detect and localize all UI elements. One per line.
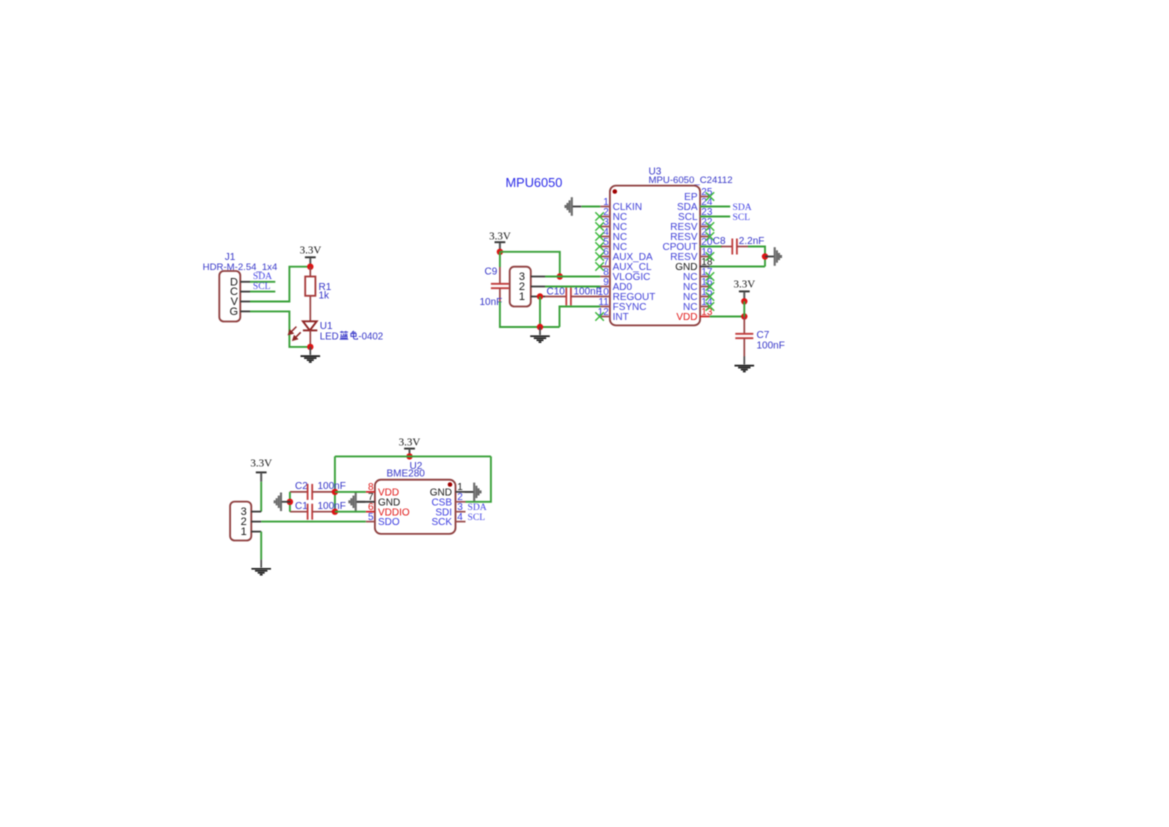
svg-text:1: 1 [241,526,247,538]
resistor R1 body [305,277,315,296]
no-connect X pin3 [595,222,604,231]
wire row8 VLOGIC [545,276,600,278]
capacitor C8 [721,239,748,255]
power 3.3V symbol (top) [404,448,415,450]
capacitor C2 [290,484,335,500]
junction node caps ground [287,499,293,505]
svg-text:1k: 1k [319,290,331,301]
wire SDO run [261,521,366,523]
ground below LED [301,347,321,362]
wire pin18 GND run [710,266,765,268]
wire 3.3V to VDD node [743,301,745,316]
U3 right pin numbers [701,187,713,318]
wire SDA pin24 [700,206,730,208]
svg-text:BME280: BME280 [387,469,426,480]
no-connect X pin16 [706,282,715,291]
capacitor C9 [491,267,509,302]
svg-text:100nF: 100nF [318,481,346,492]
U3 pin13 stub (VDD, red) [700,316,710,318]
no-connect X pin17 [706,272,715,281]
svg-text:MPU6050: MPU6050 [506,175,563,190]
wire header pin1 to ground [260,532,262,560]
resistor R1 top lead [309,267,311,277]
U2 right pin names [430,488,453,529]
wire 3.3V down to header pin3 [260,482,262,512]
junction node LED/GND [307,344,313,350]
header pin 3 stub [251,511,261,513]
junction node C2/VDD [332,489,338,495]
ground at U2 pin7 (points left) [349,493,365,512]
junction node VDD/C7 [741,313,747,319]
wire C1 node to pin6 [335,511,366,513]
power 3.3V symbol (header) [256,471,267,473]
no-connect X pin15 [706,292,715,301]
svg-text:SCL: SCL [733,212,751,223]
chip U3 body [610,186,700,326]
wire 3.3V to VLOGIC [500,252,560,277]
no-connect X pin12 [595,312,604,321]
wire SCL pin23 [700,216,730,218]
svg-text:SCK: SCK [431,517,452,528]
junction node 3.3V right [741,298,747,304]
capacitor C10 [545,288,600,306]
U2 left pin numbers [368,482,374,523]
svg-text:C9: C9 [485,267,498,278]
svg-text:3.3V: 3.3V [489,231,511,243]
ground below header [251,560,271,575]
power 3.3V symbol (left) [495,241,506,243]
U2 right pin numbers [457,482,463,523]
wire row11 FSYNC to gnd rail [560,307,601,328]
header body (3 pin) [230,502,251,541]
wire C8 to ground corner [748,247,765,267]
junction node gnd rail [537,324,543,330]
wire pin13 VDD [710,316,745,318]
U3 left pin names [613,202,656,323]
wire J1.V to 3.3V [250,267,310,302]
junction node 3.3V top [406,453,412,459]
junction node C1/VDDIO [332,509,338,515]
power 3.3V symbol [305,256,316,258]
chip U3 pin-1 mark dot [613,189,618,194]
ground right of C8 (points right) [765,247,781,266]
junction node 3.3V/R1 [307,264,313,270]
no-connect X pin21 [706,232,715,241]
U2 pin7 stub+wire (GND black) [356,501,375,503]
header pin 1 stub [251,531,261,533]
U2 pin1 stub+wire (GND black) [456,491,475,493]
chip U2 body [375,480,456,534]
wire right drop to CSB [466,456,491,501]
wire SCL from J1.C [250,291,275,293]
junction node at sideways ground [762,253,768,259]
no-connect X pin19 [706,252,715,261]
svg-text:2.2nF: 2.2nF [739,236,765,247]
jumper header body (3 pin) [510,267,531,307]
svg-text:VDD: VDD [676,312,697,323]
U3 right pin names [663,192,698,323]
wire left drop to C2/C1 [334,456,336,511]
svg-text:SCL: SCL [468,512,486,523]
wire J1.G to LED cathode [250,311,310,347]
LED U1 cathode bar [303,329,317,331]
junction node jumper pin1 [537,293,543,299]
capacitor C1 [290,504,335,520]
capacitor C9 top wire [499,252,501,267]
U2 pin3 stub [456,511,466,513]
svg-text:INT: INT [613,312,629,323]
connector J1 body [219,271,240,322]
ground below rail [530,327,550,342]
svg-text:SCL: SCL [253,281,271,292]
U3 pin18 stub (GND, black) [700,266,710,268]
U2 left pin names [378,488,410,529]
no-connect X pin2 [595,212,604,221]
wire pin1 CLKIN to ground [582,206,601,208]
no-connect X pin5 [595,242,604,251]
power 3.3V symbol (right) [739,290,750,292]
LED U1 emission arrows [289,327,301,340]
svg-text:C8: C8 [713,236,726,247]
svg-text:3.3V: 3.3V [399,436,421,448]
jumper pin 2 stub [531,286,545,288]
svg-text:3.3V: 3.3V [250,458,272,470]
U2 pin4 stub [456,521,466,523]
wire C2 node to pin8 [335,491,366,493]
svg-text:-0402: -0402 [358,331,383,342]
J1 pin G stub [240,310,250,312]
no-connect X pin6 [595,252,604,261]
header pin 2 stub [251,521,261,523]
ground at CLKIN (points left) [566,197,582,216]
wire between C2/C1 left plates [289,492,291,512]
U2 pin6 stub (VDDIO red) [366,511,375,513]
svg-text:1: 1 [519,291,525,303]
J1 pin D stub [240,281,250,283]
U2 pin2 stub [456,501,466,503]
no-connect X pin14 [706,302,715,311]
svg-text:100nF: 100nF [318,501,346,512]
chip U2 pin-1 mark dot [448,482,453,487]
no-connect X pin25 [706,192,715,201]
svg-text:SDO: SDO [378,517,400,528]
jumper pin 1 stub [531,296,545,298]
U3 right pin stubs [700,197,710,307]
junction node 3.3V left [497,249,503,255]
wire top rail [335,455,491,457]
U3 left pin numbers [598,197,610,318]
wire jumper pin1 down to gnd rail [539,297,541,328]
svg-text:C1: C1 [295,501,308,512]
U2 pin8 stub (VDD red) [366,491,375,493]
jumper pin 3 stub [531,276,545,278]
J1 pin V stub [240,301,250,303]
svg-text:10nF: 10nF [480,297,503,308]
svg-text:100nF: 100nF [757,340,785,351]
svg-text:3.3V: 3.3V [300,245,322,257]
J1 pin C stub [240,291,250,293]
no-connect X pin22 [706,222,715,231]
wire CPOUT pin20 to C8 [700,246,722,248]
svg-text:3.3V: 3.3V [733,279,755,291]
U2 pin5 stub [366,521,375,523]
wire SDA from J1.D [250,281,275,283]
ground left of caps (points left) [275,493,291,512]
capacitor C7 [735,317,753,357]
svg-text:U1: U1 [320,321,333,332]
LED U1 triangle [303,321,317,330]
LED U1 bottom lead [309,330,311,347]
svg-text:C2: C2 [295,481,308,492]
svg-text:G: G [229,306,238,318]
resistor R1 bottom lead [309,296,311,322]
no-connect X pin7 [595,262,604,271]
ground below C7 [735,356,755,371]
no-connect X pin4 [595,232,604,241]
junction node VLOGIC [557,273,563,279]
wire C9 bottom to gnd rail [500,302,560,328]
wire row9 AD0 [545,286,600,288]
svg-text:MPU-6050_C24112: MPU-6050_C24112 [649,175,733,186]
ground at U2 pin1 (points right) [465,483,481,502]
U3 left pin stubs 1-12 [600,207,610,317]
svg-text:LED: LED [320,331,339,342]
